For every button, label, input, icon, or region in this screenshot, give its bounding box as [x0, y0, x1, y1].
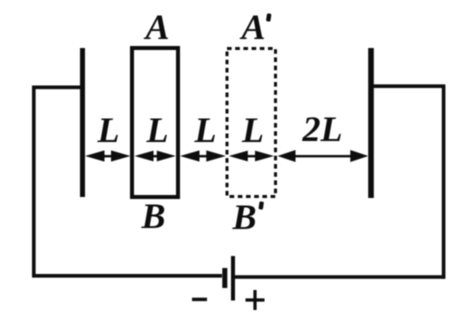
svg-text:L: L: [241, 110, 264, 150]
prime mark of B': [258, 201, 263, 210]
wire left vertical: [32, 86, 36, 278]
capacitor right plate: [368, 48, 374, 198]
arrow 2L gap (slab A' to right plate): [278, 150, 369, 162]
capacitor left plate: [80, 48, 85, 197]
battery minus sign: [192, 298, 207, 301]
wire bottom left: [32, 274, 222, 278]
svg-text:B: B: [231, 197, 256, 237]
wire left top horizontal: [32, 86, 83, 90]
svg-text:B: B: [140, 196, 165, 236]
battery plus sign horizontal: [246, 298, 265, 301]
arrow L gap 2 (slab A to slab A'): [180, 150, 226, 161]
svg-text:L: L: [146, 110, 169, 150]
wire right top horizontal: [371, 84, 445, 88]
battery positive plate (long bar): [231, 256, 235, 301]
dielectric slab A-B (solid rectangle): [132, 48, 178, 197]
svg-text:L: L: [97, 110, 120, 150]
battery plus sign vertical: [253, 290, 256, 310]
wire right vertical: [442, 85, 446, 279]
arrow L gap 1 (left plate to slab A): [85, 150, 131, 161]
wire bottom right: [235, 275, 445, 279]
prime mark of A': [266, 13, 271, 22]
svg-text:2L: 2L: [302, 109, 343, 149]
svg-text:L: L: [194, 110, 217, 150]
svg-text:A: A: [143, 7, 169, 47]
dielectric slab A'-B' (dashed rectangle): [227, 49, 276, 197]
arrow L inside slab A': [229, 151, 274, 162]
svg-text:A: A: [239, 7, 265, 47]
arrow L inside slab A: [135, 151, 176, 162]
battery negative plate (short bar): [222, 268, 227, 288]
